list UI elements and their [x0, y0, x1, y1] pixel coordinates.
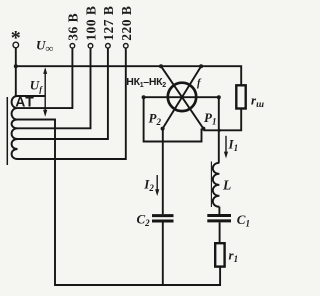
svg-text:100 В: 100 В [84, 6, 99, 41]
svg-text:127 В: 127 В [101, 6, 116, 41]
svg-text:НК1–НК2: НК1–НК2 [126, 76, 166, 89]
svg-text:220 В: 220 В [119, 6, 134, 41]
svg-text:36 В: 36 В [65, 13, 80, 41]
svg-text:АТ: АТ [15, 93, 34, 109]
svg-text:L: L [222, 178, 231, 193]
svg-text:*: * [11, 27, 21, 49]
